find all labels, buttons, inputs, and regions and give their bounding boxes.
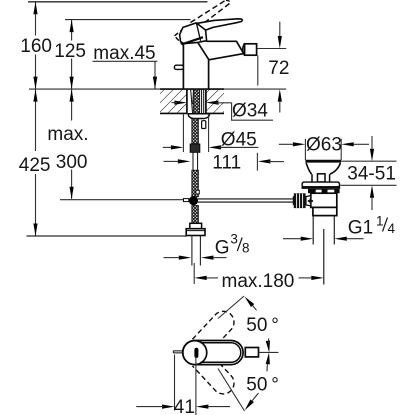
faucet body outline [183, 41, 243, 89]
upper 50 deg leader arrow [245, 297, 255, 307]
svg-text:8: 8 [242, 240, 250, 255]
lower 50 deg angle line [218, 369, 245, 412]
svg-text:Ø34: Ø34 [232, 101, 268, 122]
rod attachment cone [306, 196, 311, 206]
upper reference line 34-51 [341, 160, 396, 162]
rod junction dot [189, 196, 198, 205]
top view body circle [183, 341, 207, 365]
rod knurled knob [294, 193, 306, 208]
label Ø45 underline [219, 146, 258, 148]
svg-text:41: 41 [174, 397, 195, 415]
lever raised dashed line B [198, 4, 230, 29]
lever handle blade [196, 19, 242, 30]
svg-text:3: 3 [230, 232, 238, 247]
label Ø34 leader step [232, 103, 273, 120]
dim 72 arrows [279, 22, 281, 36]
svg-text:max.: max. [47, 124, 88, 145]
housing inner edge [197, 23, 201, 41]
lower 50 deg leader arrow [245, 399, 254, 410]
G3/8 connector hex nut [186, 229, 205, 236]
G3/8 connector upper collar [190, 223, 202, 228]
dim G1 1/4 arrows [301, 237, 314, 241]
small tab above dot [196, 190, 199, 194]
mounting flange dome under deck [188, 114, 210, 119]
top view aerator square [245, 348, 258, 357]
hose plain tube segment [193, 152, 198, 170]
dim 111 left arrow [178, 159, 191, 163]
waste neck center tab [318, 174, 326, 182]
G3/8 connector nut shading [186, 230, 205, 232]
deck hole right edge [205, 89, 207, 113]
rod guide tab [202, 121, 206, 129]
svg-text:111: 111 [212, 152, 241, 173]
lever swivel lower dashed outline [192, 351, 238, 398]
pull rod lines in hole [191, 90, 194, 114]
top view lever outer outline [183, 341, 243, 365]
dim 125 arrows [70, 20, 74, 32]
dim 111 right arrow [258, 159, 271, 163]
body centerline extension [195, 357, 197, 415]
svg-text:50 °: 50 ° [246, 315, 279, 336]
dim 425 arrows [33, 89, 37, 102]
hose braid upper segment [192, 119, 199, 145]
dim G3/8 arrows [179, 256, 192, 260]
svg-text:1: 1 [376, 214, 384, 229]
lower reference line 34-51 [340, 184, 396, 186]
hose braid middle segment [192, 170, 199, 197]
dim 41 arrows [162, 405, 175, 409]
hose braid lower segment [192, 206, 199, 224]
waste neck walls [312, 174, 330, 182]
rod to waste double line [198, 199, 294, 202]
dim Ø63 arrows [293, 142, 306, 146]
deck slab top edge [160, 88, 224, 90]
top view lever inner line [201, 343, 241, 363]
deck slab left hatched [160, 90, 186, 113]
svg-text:72: 72 [268, 58, 289, 79]
svg-text:125: 125 [54, 41, 86, 62]
hose upper cap fitting [190, 144, 200, 152]
spout outlet reference line [257, 48, 286, 50]
dim max.180 arrows [194, 276, 207, 280]
svg-text:max.180: max.180 [222, 271, 295, 292]
housing neck bottom bold edge [184, 37, 203, 43]
angle arrows at centerline [266, 341, 270, 353]
reference line lever height 125 [65, 19, 191, 21]
svg-text:50 °: 50 ° [246, 375, 279, 396]
lever pivot housing [180, 23, 207, 44]
svg-text:Ø63: Ø63 [306, 135, 342, 156]
svg-text:4: 4 [388, 221, 396, 236]
dim 111 right extension bar [256, 153, 258, 171]
dim 34-51 arrows [371, 136, 373, 149]
dim Ø45 extension lines [183, 114, 208, 152]
faucet body fill [183, 41, 243, 89]
top view pivot mark [194, 350, 198, 356]
faucet centerline extension [193, 263, 195, 284]
waste seal flange scalloped [302, 182, 339, 187]
dim Ø45 arrows [171, 145, 184, 149]
lever swivel upper dashed outline [192, 307, 238, 354]
svg-text:Ø45: Ø45 [221, 130, 257, 151]
svg-text:160: 160 [20, 36, 52, 57]
dim max.425 vertical line [35, 90, 37, 236]
svg-text:34-51: 34-51 [347, 163, 396, 184]
deck reference line [29, 88, 286, 90]
lever raised dashed tip cap [226, 0, 230, 3]
shank threaded braid in hole [193, 89, 199, 113]
svg-text:G: G [215, 237, 230, 258]
dim 160 vertical line [35, 2, 37, 88]
waste lock nut [313, 207, 337, 215]
waste upper body band with slots [308, 189, 340, 193]
dim 125 vertical line [71, 20, 73, 89]
dim max.300 vertical line [71, 90, 73, 199]
spout rounded end [243, 44, 245, 56]
deck slab bottom edge [160, 112, 224, 114]
aerator block [245, 44, 257, 55]
top view centerline right [259, 351, 279, 353]
rod clamp left of dot [184, 199, 189, 202]
top reference line (lever raised height) [28, 1, 208, 3]
dim 300 arrows [70, 89, 74, 102]
deck hole left edge [186, 89, 188, 113]
pop-up rod reference line 300 bottom [60, 199, 184, 201]
waste plate extension lines [305, 139, 341, 160]
G3/8 tube [192, 236, 201, 266]
rod pivot cross [308, 199, 313, 204]
spout tip extension line [257, 56, 259, 86]
top view pop-up rod [173, 351, 183, 353]
lever lowered dashed outline [175, 29, 191, 44]
shank tube lines in hole [202, 90, 204, 114]
hose end reference line 425 bottom [27, 235, 188, 237]
waste tailpipe [313, 216, 334, 245]
waste plate thick line [305, 160, 341, 163]
rod end extension line [174, 355, 176, 411]
dim Ø34 arrows [174, 101, 187, 105]
waste main body [311, 193, 337, 207]
waste centerline [323, 229, 325, 285]
svg-text:G1: G1 [348, 218, 373, 239]
deck slab right hatched [206, 90, 224, 113]
upper 50 deg angle line [218, 296, 244, 319]
waste dome cone [306, 163, 340, 174]
lever raised dashed line A [191, 0, 227, 23]
dim 160 arrows [33, 2, 37, 15]
waste seal flange bold bottom [302, 186, 341, 189]
svg-text:425: 425 [19, 155, 51, 176]
dim max.45 drop line and arrow [154, 61, 156, 88]
pop-up rod knob tab [174, 65, 183, 69]
